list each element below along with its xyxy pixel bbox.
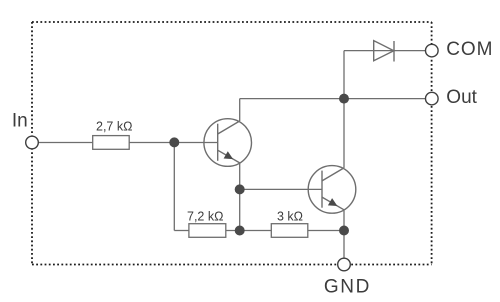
wire node B vertical to Q2 collector: [343, 51, 345, 168]
wire Q1 emitter down to R2 row: [239, 163, 241, 231]
svg-text:2,7 kΩ: 2,7 kΩ: [96, 120, 132, 134]
svg-text:COM: COM: [446, 39, 493, 60]
terminal GND: [324, 258, 371, 297]
wire R1 to Q1 base: [129, 142, 218, 144]
junction node C (Q1 emitter / Q2 base): [235, 184, 245, 194]
wire Q1 collector up: [239, 99, 241, 121]
wire to R2 left: [174, 230, 189, 232]
resistor R2 7,2 kOhm: [187, 209, 226, 237]
wire to diode anode: [344, 50, 394, 52]
svg-text:3 kΩ: 3 kΩ: [277, 209, 303, 223]
svg-text:Out: Out: [446, 87, 477, 108]
junction node D (resistor row): [235, 226, 245, 236]
wire Q2 emitter to GND: [343, 211, 345, 259]
device outline dotted enclosure: [32, 22, 432, 265]
wire collector rail to Out: [240, 98, 426, 100]
wire In to R1: [38, 142, 92, 144]
wire Q1 emitter node to Q2 base: [240, 188, 322, 190]
terminal In: [12, 111, 38, 149]
wire R3 to node D: [308, 230, 344, 232]
wire node A down to R2 row: [173, 143, 175, 231]
diode D1: [374, 41, 394, 62]
wire diode cathode to COM: [394, 50, 426, 52]
svg-text:In: In: [12, 111, 28, 132]
terminal Out: [426, 87, 478, 108]
junction node E (Q2 emitter row): [339, 226, 349, 236]
transistor Q2: [308, 166, 356, 214]
resistor R1 2,7 kOhm: [93, 120, 133, 150]
wire R2 to R3: [226, 230, 271, 232]
svg-text:7,2 kΩ: 7,2 kΩ: [187, 209, 223, 223]
svg-text:GND: GND: [324, 276, 371, 297]
resistor R3 3 kOhm: [271, 209, 308, 237]
junction node B (collector rail): [339, 94, 349, 104]
junction node A (base rail): [169, 137, 179, 147]
transistor Q1: [204, 119, 252, 167]
terminal COM: [426, 39, 494, 60]
